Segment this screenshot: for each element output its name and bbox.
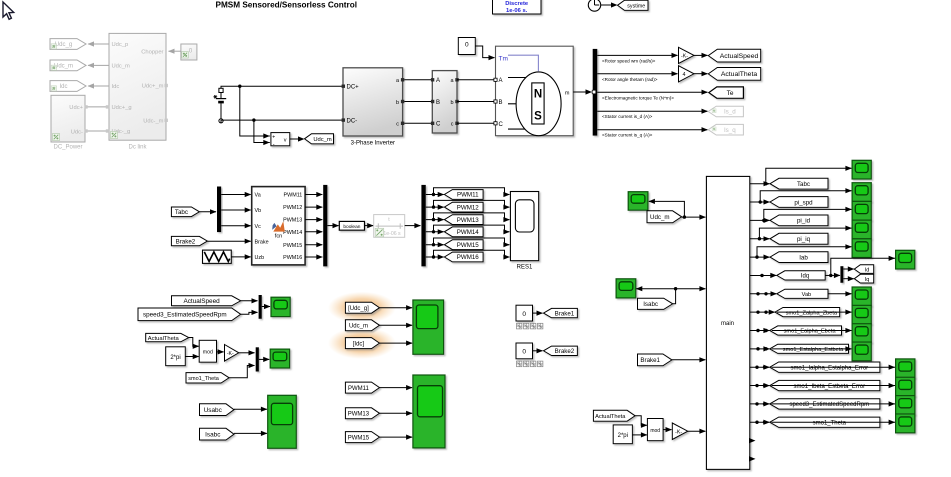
svg-text:Te: Te xyxy=(727,90,734,97)
svg-text:3-Phase Inverter: 3-Phase Inverter xyxy=(351,141,395,147)
svg-text:2*pi: 2*pi xyxy=(170,355,180,361)
wire through smo1_Theta to scope xyxy=(772,421,896,423)
wire inverter b to measurement B xyxy=(404,101,432,103)
scope pi_spd green xyxy=(852,183,871,202)
svg-text:-K-: -K- xyxy=(227,351,234,357)
svg-text:Uzb: Uzb xyxy=(255,255,265,261)
svg-text:pi_iq: pi_iq xyxy=(797,236,811,243)
svg-text:smo1_Ealpha_Ebeta: smo1_Ealpha_Ebeta xyxy=(784,329,837,335)
goto tag pi_iq xyxy=(770,233,828,244)
svg-text:PWM14: PWM14 xyxy=(283,230,302,236)
PMSM magnet rect N S xyxy=(532,83,544,124)
svg-text:pi_spd: pi_spd xyxy=(794,199,813,206)
block 3-Phase Inverter xyxy=(343,68,403,136)
svg-text:<Electromagnetic torque Te (N*: <Electromagnetic torque Te (N*m)> xyxy=(602,95,674,100)
wire demux3 to Iq xyxy=(843,278,853,280)
goto tag smo1_Estalpha_Estbeta xyxy=(770,344,849,353)
wire branch pi_id to scope xyxy=(764,209,852,220)
svg-text:PWM15: PWM15 xyxy=(457,242,480,249)
from tag Usabc xyxy=(200,404,235,416)
wire branch PWM12 to scope RES1 xyxy=(434,200,510,207)
scope Isabc green small xyxy=(616,279,636,298)
svg-text:PWM11: PWM11 xyxy=(348,386,370,392)
svg-text:Id: Id xyxy=(865,267,870,273)
svg-text:C: C xyxy=(499,122,504,128)
from tag Brake2 xyxy=(171,236,207,245)
svg-text:DC+: DC+ xyxy=(347,85,360,91)
scope smo1_Ialpha_Estalpha_Error green xyxy=(896,359,915,378)
from tag Udc_m main input xyxy=(647,211,682,223)
voltage measurement block xyxy=(271,133,290,146)
wire Isabc to scope xyxy=(234,432,267,434)
wire demux2 to goto PWM16 xyxy=(426,256,444,258)
scope smo1_Estalpha_Estbeta green xyxy=(852,342,871,361)
main unconnected output port 16 xyxy=(749,456,756,461)
svg-text:[Udc_g]: [Udc_g] xyxy=(348,306,369,312)
wire branch PWM16 to scope RES1 xyxy=(434,250,510,257)
wire ActualTheta to mod2 xyxy=(635,416,647,426)
svg-text:<Rotor speed wm (rad/s)>: <Rotor speed wm (rad/s)> xyxy=(602,58,656,63)
svg-text:0: 0 xyxy=(522,311,526,318)
caption short-circuit braking xyxy=(517,323,522,329)
svg-text:PWM13: PWM13 xyxy=(457,217,480,224)
demux bar Id Iq xyxy=(840,266,843,283)
wire Isabc bus to main xyxy=(676,288,706,290)
svg-text:Tabc: Tabc xyxy=(797,181,810,188)
wire sawtooth to Uzb xyxy=(231,256,250,258)
wire main to goto Tabc xyxy=(750,183,770,185)
svg-text:Udc-: Udc- xyxy=(71,129,83,135)
faded goto tag Is_q xyxy=(708,124,743,135)
from tag Isabc main input xyxy=(638,298,673,309)
from tag PWM11 monitor xyxy=(345,382,379,393)
wire through speed3_EstimatedSpeedRpm to scope xyxy=(772,403,896,405)
svg-text:Idq: Idq xyxy=(801,274,809,280)
svg-text:PWM13: PWM13 xyxy=(348,412,370,418)
svg-text:0: 0 xyxy=(522,349,526,356)
wire branch Udc_m to scope xyxy=(649,201,685,217)
wire demux to Va xyxy=(221,194,251,196)
wire rotor angle signal xyxy=(597,73,677,75)
svg-text:b: b xyxy=(450,100,453,106)
goto tag smo1_Theta xyxy=(770,417,880,427)
svg-text:b: b xyxy=(396,100,399,106)
svg-text:mod: mod xyxy=(203,350,213,356)
scope smo1_Ealpha_Ebeta green xyxy=(852,324,871,343)
svg-text:Is_d: Is_d xyxy=(724,109,736,116)
scope speed green xyxy=(271,297,290,316)
svg-text:1e-06 s.: 1e-06 s. xyxy=(506,8,528,14)
scope Udc Idc green xyxy=(413,300,444,354)
constant block 0 brake1 xyxy=(516,305,533,321)
goto tag Idq xyxy=(777,271,825,280)
faded constant block chopper 0 xyxy=(181,44,197,60)
svg-text:PWM12: PWM12 xyxy=(457,204,480,211)
PMSM port nubs xyxy=(494,78,497,81)
orange glow highlight Udc_g xyxy=(328,292,396,324)
svg-text:smo1_Theta: smo1_Theta xyxy=(188,376,220,382)
wire main to goto smo1_Ealpha_Ebeta xyxy=(750,330,769,332)
wire Usabc to scope xyxy=(234,408,267,410)
svg-text:PWM14: PWM14 xyxy=(457,229,480,236)
svg-text:+: + xyxy=(272,134,275,140)
wire demux to Vb xyxy=(221,209,251,211)
svg-text:Usabc: Usabc xyxy=(204,407,223,414)
caption inertia braking xyxy=(517,361,522,367)
goto tag Iab xyxy=(770,252,828,263)
goto tag PWM12 xyxy=(444,202,483,212)
svg-text:Iq: Iq xyxy=(865,277,870,283)
goto tag PWM16 xyxy=(444,252,483,262)
wire main to goto smo1_Estalpha_Estbeta xyxy=(750,348,769,350)
svg-text:A: A xyxy=(499,78,503,84)
svg-text:A: A xyxy=(436,78,440,84)
gain -K- speed xyxy=(679,47,695,63)
svg-text:N: N xyxy=(534,89,542,101)
from tag Tabc xyxy=(171,207,199,217)
port nub Dc link Udc+_m xyxy=(165,84,168,87)
wire DC+ branch to voltage measurement plus xyxy=(240,86,270,136)
demux bar for PWM signals xyxy=(421,185,425,267)
wire Idc to scope xyxy=(380,342,413,344)
junction on DC- wire xyxy=(252,118,255,121)
wire DC- branch to voltage measurement minus xyxy=(254,120,270,142)
from tag [Idc] xyxy=(345,338,379,349)
wire Udc_m tag to main xyxy=(682,216,706,218)
goto tag smo1_Ealpha_Ebeta xyxy=(770,326,842,335)
wire stator current q signal xyxy=(597,129,707,131)
from tag Brake1 main input xyxy=(638,354,672,366)
goto tag Te xyxy=(709,87,744,98)
faded goto tag Idc xyxy=(50,81,86,92)
svg-text:PWM11: PWM11 xyxy=(457,192,479,199)
block PMSM motor xyxy=(496,46,574,136)
svg-text:Udc+_m: Udc+_m xyxy=(142,84,164,90)
gain -K- main theta xyxy=(672,423,688,440)
svg-text:Udc_m: Udc_m xyxy=(313,137,332,143)
scope smo1_Theta green xyxy=(896,414,915,433)
wire measurement a to PMSM A xyxy=(457,79,496,81)
wire PWM11 to scope xyxy=(380,387,413,389)
svg-text:S: S xyxy=(534,111,542,123)
goto tag PWM14 xyxy=(444,227,483,237)
wire battery plus to inverter DC+ xyxy=(221,86,343,88)
wire inverter a to measurement A xyxy=(404,79,432,81)
wire demux3 to Id xyxy=(843,268,853,270)
svg-text:smo1_Zalpha_Zbeta: smo1_Zalpha_Zbeta xyxy=(786,310,838,316)
svg-text:fcn: fcn xyxy=(275,234,282,240)
wire battery minus to inverter DC- xyxy=(221,120,343,123)
wire main to goto pi_iq xyxy=(750,238,770,240)
svg-text:-: - xyxy=(273,141,275,147)
from tag Isabc lower xyxy=(200,428,235,440)
constant block 0 brake2 xyxy=(516,343,533,359)
svg-text:Udc_m: Udc_m xyxy=(54,64,73,70)
svg-text:Udc_m: Udc_m xyxy=(349,324,368,330)
wire main to goto smo1_Ialpha_Estalpha_Error xyxy=(750,366,769,368)
wire ActualSpeed to mux xyxy=(241,300,258,302)
PMSM stator lead A xyxy=(508,77,526,79)
svg-text:Udc_m: Udc_m xyxy=(650,214,670,221)
wire Dc link Idc to tag Idc xyxy=(88,85,109,87)
wire 2*pi to mod xyxy=(185,356,198,358)
wire stator current d signal xyxy=(597,110,707,112)
constant block 2*pi xyxy=(166,347,186,366)
svg-text:systime: systime xyxy=(627,4,645,10)
goto tag Brake1 xyxy=(544,308,578,317)
PMSM rotor ellipse xyxy=(516,72,561,136)
from tag Udc_m lower xyxy=(345,320,379,331)
goto tag PWM13 xyxy=(444,215,483,225)
from tag ActualTheta main input xyxy=(593,410,635,421)
svg-text:Udc_p: Udc_p xyxy=(112,42,129,48)
svg-text:-K-: -K- xyxy=(675,429,682,435)
from tag speed3_EstimatedSpeedRpm xyxy=(138,308,241,321)
faded block Dc link xyxy=(109,33,166,140)
gain 4 theta xyxy=(679,66,695,82)
svg-text:Idc: Idc xyxy=(59,84,67,90)
svg-text:boolean: boolean xyxy=(343,224,360,230)
svg-text:4: 4 xyxy=(683,72,686,78)
scope Usabc Isabc green xyxy=(268,395,297,448)
block main controller xyxy=(706,176,749,469)
wire rate transition to demux2 xyxy=(405,225,421,227)
mux bar speed xyxy=(259,295,262,319)
wire demux2 to goto PWM13 xyxy=(426,219,444,221)
wire Dc link Udc_m to tag Udc_m xyxy=(88,64,109,66)
main unconnected output port 15 xyxy=(749,438,756,443)
svg-text:PWM16: PWM16 xyxy=(283,255,302,261)
svg-text:Tm: Tm xyxy=(499,55,508,62)
boolean conversion block xyxy=(339,221,364,230)
svg-text:Brake1: Brake1 xyxy=(640,357,660,364)
goto tag pi_id xyxy=(770,215,828,226)
constant block 2*pi main xyxy=(613,425,632,444)
wire inverter c to measurement C xyxy=(404,122,432,124)
svg-text:RES1: RES1 xyxy=(517,264,533,270)
wire main to goto smo1_Theta xyxy=(750,421,769,423)
goto tag ActualTheta xyxy=(708,68,760,81)
mux bar theta xyxy=(256,347,259,371)
goto tag Vab xyxy=(777,289,828,298)
faded goto tag Is_d xyxy=(708,106,743,117)
wire through smo1_Zalpha_Zbeta to scope xyxy=(777,311,851,313)
gain -K- theta scale xyxy=(225,345,239,362)
wire speed3 to mux xyxy=(241,312,258,314)
wire through smo1_Ialpha_Estalpha_Error to scope xyxy=(772,366,896,368)
block three-phase VI measurement xyxy=(432,71,457,133)
wire Dc link Udc_p to tag Udc_g xyxy=(88,43,109,45)
from tag ActualTheta xyxy=(146,333,189,341)
wire mod2 to gain2 xyxy=(663,429,671,431)
svg-text:ActualTheta: ActualTheta xyxy=(721,71,757,78)
wire Udc_g to scope xyxy=(380,307,413,309)
wire smo1_Theta to mux theta xyxy=(229,366,254,378)
wire branch Tabc to scope xyxy=(766,168,852,183)
svg-text:Udc-_m: Udc-_m xyxy=(143,119,163,125)
wire rotor speed signal xyxy=(597,54,677,56)
wire ActualTheta to mod xyxy=(189,338,199,347)
wire demux2 to goto PWM15 xyxy=(426,244,444,246)
goto tag smo1_Zalpha_Zbeta xyxy=(775,308,840,317)
wire torque signal to Te xyxy=(597,91,707,93)
faded goto tag Udc_g xyxy=(50,39,86,50)
svg-text:DC-: DC- xyxy=(347,119,358,125)
svg-text:C: C xyxy=(436,122,441,128)
wire main to goto pi_id xyxy=(750,219,770,221)
demux bar for Tabc xyxy=(217,187,221,233)
svg-text:DC_Power: DC_Power xyxy=(53,145,82,151)
wire branch pi_iq to scope xyxy=(759,228,851,239)
wire main to goto Iab xyxy=(750,256,770,258)
orange glow highlight Idc xyxy=(328,327,396,359)
svg-text:ActualTheta: ActualTheta xyxy=(595,414,626,420)
svg-text:-K-: -K- xyxy=(681,54,688,60)
goto tag speed3_EstimatedSpeedRpm xyxy=(770,399,880,409)
goto tag Udc_m near inverter xyxy=(305,134,334,144)
wire Isabc tag up to bus xyxy=(673,289,676,304)
wire gain to mux theta xyxy=(239,352,255,354)
wire Tabc to demux xyxy=(199,211,216,213)
scope pi_iq green xyxy=(852,220,871,239)
wire constant to PMSM Tm xyxy=(475,46,494,58)
svg-text:Brake1: Brake1 xyxy=(555,310,575,317)
wire gain to ActualTheta xyxy=(694,73,708,75)
svg-text:Isabc: Isabc xyxy=(205,431,221,438)
svg-text:pi_id: pi_id xyxy=(797,218,811,225)
wire main to goto speed3_EstimatedSpeedRpm xyxy=(750,403,769,405)
from tag PWM15 monitor xyxy=(345,432,379,443)
wire Brake2 to Brake port xyxy=(207,240,250,242)
wire Idq tag to demux3 xyxy=(825,274,840,276)
wire branch Idq to scope xyxy=(831,258,895,275)
junction on DC+ wire xyxy=(238,85,241,88)
svg-text:PWM13: PWM13 xyxy=(283,218,302,224)
svg-text:c: c xyxy=(451,122,454,128)
scope PWM green xyxy=(413,375,445,448)
wire const to Brake1 xyxy=(533,312,543,314)
wire main to goto smo1_Ibeta_Estbeta_Error xyxy=(750,385,769,387)
svg-text:Dc link: Dc link xyxy=(128,145,147,151)
PMSM blue Tm line xyxy=(508,55,538,71)
svg-text:Udc+_g: Udc+_g xyxy=(112,105,132,111)
wire Isabc bus to scope xyxy=(636,288,675,290)
svg-text:1e-06 s: 1e-06 s xyxy=(383,231,401,237)
wire demux2 to goto PWM14 xyxy=(426,231,444,233)
svg-text:B: B xyxy=(436,100,440,106)
svg-text:<Stator current is_d (A)>: <Stator current is_d (A)> xyxy=(602,114,653,119)
svg-text:Chopper: Chopper xyxy=(141,49,163,55)
wires subsystem outputs to mux xyxy=(305,194,322,196)
scope Udc_m green small xyxy=(628,192,648,211)
wire PMSM m to bus selector xyxy=(573,91,591,93)
svg-text:Brake: Brake xyxy=(255,239,269,245)
goto tag PWM15 xyxy=(444,240,483,250)
wire gain2 to main xyxy=(688,430,706,432)
math function block mod2 xyxy=(647,419,663,441)
wire mod to gain xyxy=(217,351,224,353)
wire mux to boolean xyxy=(327,225,338,227)
svg-text:[Idc]: [Idc] xyxy=(353,341,365,347)
svg-text:ActualSpeed: ActualSpeed xyxy=(720,53,759,60)
wire through smo1_Estalpha_Estbeta to scope xyxy=(772,348,852,350)
svg-text:2*pi: 2*pi xyxy=(618,433,628,439)
wire main to goto Vab xyxy=(750,293,777,295)
svg-text:Udc_m: Udc_m xyxy=(112,64,131,70)
scope Iab green xyxy=(852,239,871,258)
svg-text:speed3_EstimatedSpeedRpm: speed3_EstimatedSpeedRpm xyxy=(789,402,869,408)
wire voltage measurement to goto Udc_m xyxy=(290,138,304,140)
svg-text:0: 0 xyxy=(465,42,469,49)
scope Idq green xyxy=(896,250,915,269)
wire Udc_m to scope xyxy=(380,324,413,326)
svg-text:c: c xyxy=(396,122,399,128)
svg-text:smo1_Estalpha_Estbeta: smo1_Estalpha_Estbeta xyxy=(783,347,845,353)
wire Brake1 to main xyxy=(672,359,706,361)
svg-text:Vb: Vb xyxy=(255,208,262,214)
goto tag PWM11 xyxy=(444,190,483,200)
wire boolean to rate transition xyxy=(365,225,374,227)
clock block xyxy=(588,0,600,11)
svg-text:Udc_g: Udc_g xyxy=(55,42,72,48)
repeating sequence sawtooth block xyxy=(203,250,232,263)
bus selector bar xyxy=(593,49,598,136)
scope smo1_Zalpha_Zbeta green xyxy=(852,305,871,324)
svg-text:PWM15: PWM15 xyxy=(348,435,370,441)
svg-text:Brake2: Brake2 xyxy=(555,348,575,355)
matlab fcn logo xyxy=(273,221,285,231)
svg-text:ActualTheta: ActualTheta xyxy=(148,336,180,342)
goto tag smo1_Ibeta_Estbeta_Error xyxy=(770,380,880,390)
wire through smo1_Ealpha_Ebeta to scope xyxy=(772,330,852,332)
svg-text:smo1_Ibeta_Estbeta_Error: smo1_Ibeta_Estbeta_Error xyxy=(793,384,865,390)
goto tag Iq xyxy=(854,274,873,283)
svg-text:Va: Va xyxy=(255,193,261,199)
goto tag systime xyxy=(618,0,649,10)
wire branch PWM11 to scope RES1 xyxy=(434,188,510,195)
constant block 0 for Tm xyxy=(458,38,475,55)
scope smo1_Ibeta_Estbeta_Error green xyxy=(896,377,915,396)
svg-text:Iab: Iab xyxy=(799,254,808,261)
faded block DC_Power xyxy=(51,95,85,142)
PMSM stator lead C xyxy=(508,128,525,130)
PMSM stator lead B xyxy=(508,103,516,105)
svg-text:PMSM Sensored/Sensorless Contr: PMSM Sensored/Sensorless Control xyxy=(216,0,358,9)
goto tag Tabc xyxy=(770,178,828,189)
wire mux theta to scope xyxy=(259,358,269,360)
dc voltage source battery xyxy=(220,92,222,98)
from tag [Udc_g] xyxy=(345,302,379,313)
svg-text:PWM16: PWM16 xyxy=(457,254,480,261)
wire DC_Power Udc+ to Dc link Udc+_g xyxy=(85,106,109,108)
svg-text:mod: mod xyxy=(650,428,660,434)
powergui block Discrete 1e-06 s xyxy=(493,0,542,14)
wire DC_Power Udc- to Dc link Udc-_g xyxy=(85,130,109,132)
wire clock to systime xyxy=(601,4,617,6)
mux bar after subsystem xyxy=(323,185,327,267)
scope RES1 xyxy=(510,192,538,261)
wire branch pi_spd to scope xyxy=(760,191,851,202)
scope Vab green xyxy=(852,287,871,306)
wire demux2 to goto PWM11 xyxy=(426,194,444,196)
wire PWM13 to scope xyxy=(380,412,413,414)
svg-text:Vab: Vab xyxy=(802,292,812,298)
svg-text:Brake2: Brake2 xyxy=(176,238,196,245)
wire branch Iab to scope xyxy=(757,247,851,257)
scope pi_id green xyxy=(852,201,871,220)
faded goto tag Udc_m xyxy=(50,60,86,71)
subsystem block PWM generator fcn xyxy=(252,187,305,265)
